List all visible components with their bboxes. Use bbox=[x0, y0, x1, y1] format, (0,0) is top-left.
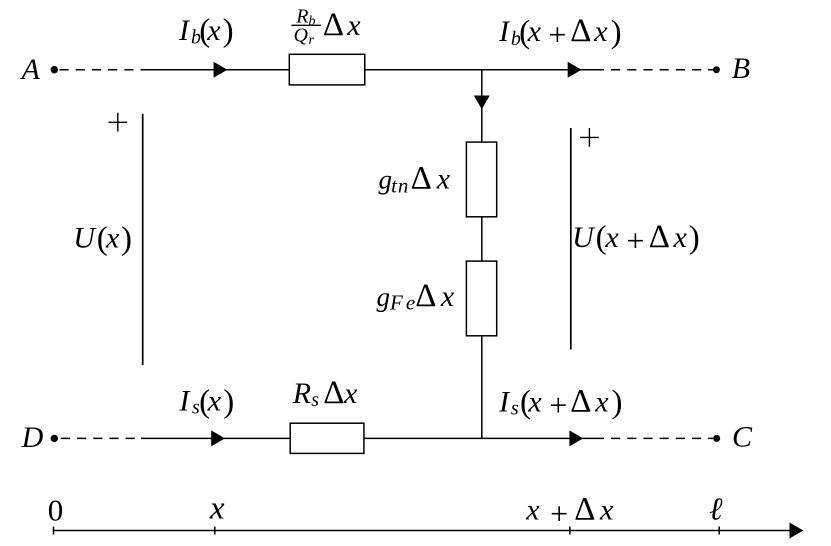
svg-text:D: D bbox=[21, 421, 44, 454]
svg-text:gtnΔx: gtnΔx bbox=[379, 161, 451, 198]
svg-text:Is(x): Is(x) bbox=[178, 384, 234, 420]
svg-text:U(x+Δx): U(x+Δx) bbox=[572, 219, 700, 259]
svg-text:gFeΔx: gFeΔx bbox=[377, 278, 455, 315]
svg-text:Δx: Δx bbox=[323, 7, 361, 43]
svg-text:ℓ: ℓ bbox=[709, 491, 723, 527]
svg-text:B: B bbox=[732, 52, 750, 85]
svg-text:U(x): U(x) bbox=[73, 221, 132, 257]
svg-text:RsΔx: RsΔx bbox=[292, 375, 358, 411]
svg-text:Ib(x): Ib(x) bbox=[178, 13, 234, 49]
svg-text:C: C bbox=[732, 421, 753, 454]
svg-text:x: x bbox=[209, 491, 225, 527]
svg-text:0: 0 bbox=[48, 493, 64, 528]
svg-text:A: A bbox=[20, 53, 41, 86]
